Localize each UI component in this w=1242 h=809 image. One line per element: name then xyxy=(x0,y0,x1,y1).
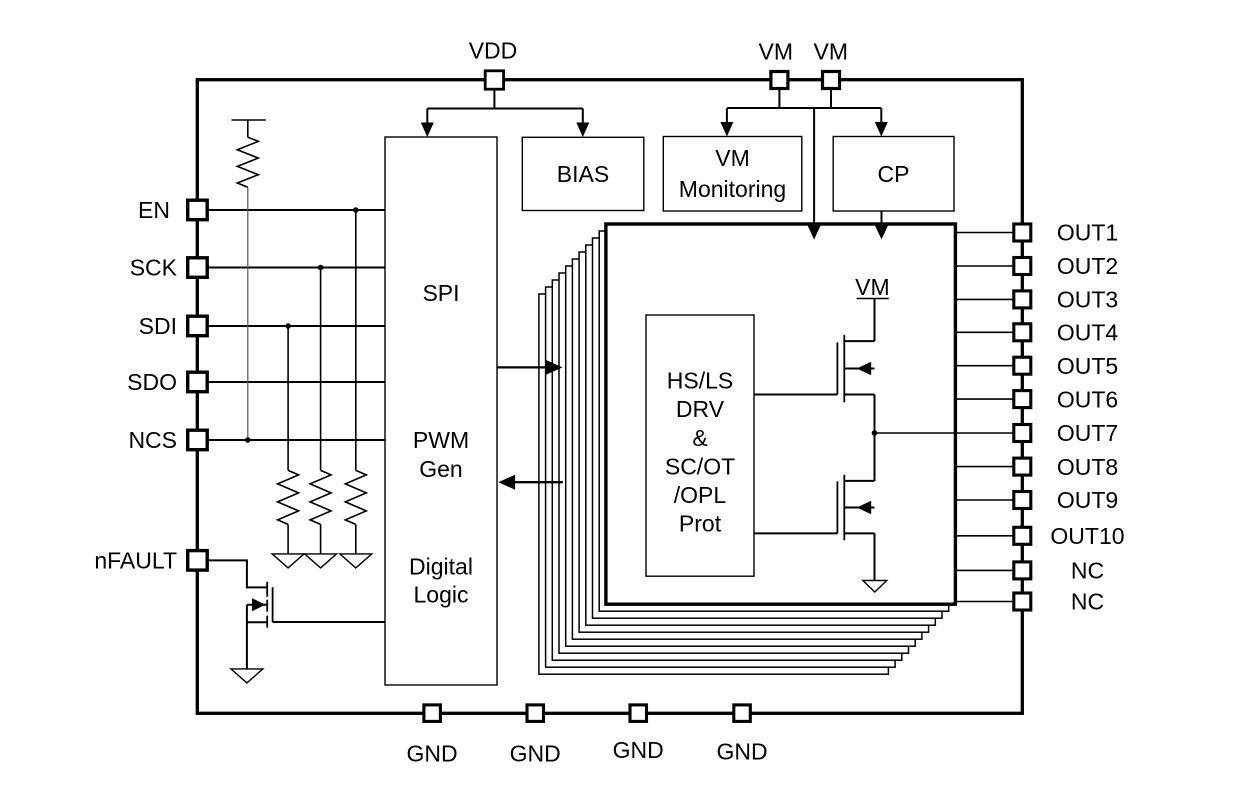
ground under R2 xyxy=(272,554,304,568)
pin GND3 xyxy=(613,705,664,763)
svg-text:&: & xyxy=(692,425,707,451)
wire R3 to ground xyxy=(320,524,322,554)
pin GND1 xyxy=(407,705,458,767)
arrow VDD into BIAS xyxy=(576,123,589,138)
node junction EN tap xyxy=(353,207,359,213)
wire NCS to SPI xyxy=(199,439,385,441)
wire Q2 source to output node xyxy=(874,395,876,434)
arrow VM into VM Monitoring xyxy=(720,122,733,137)
ground under Q1 xyxy=(231,669,263,683)
svg-text:SC/OT: SC/OT xyxy=(665,453,735,479)
svg-text:OUT8: OUT8 xyxy=(1057,454,1118,480)
pin EN xyxy=(138,197,207,223)
pin SDO xyxy=(127,369,207,395)
transistor Q1 nFAULT open-drain NMOS xyxy=(247,582,273,628)
svg-text:NC: NC xyxy=(1071,558,1104,584)
wire CP output stem xyxy=(881,211,883,224)
wire half-bridge to OUT2 xyxy=(955,265,1014,267)
svg-text:Logic: Logic xyxy=(414,581,469,607)
pin OUT3 xyxy=(1014,287,1118,313)
arrow CP into half-bridge xyxy=(875,225,889,240)
svg-text:nFAULT: nFAULT xyxy=(94,548,177,574)
svg-text:NC: NC xyxy=(1071,589,1104,615)
arrow VM into CP xyxy=(875,122,888,137)
wire output node to Q3 drain xyxy=(874,433,876,481)
wire half-bridge to NC xyxy=(955,569,1014,571)
svg-text:NCS: NCS xyxy=(128,427,177,453)
ground under R3 xyxy=(305,554,337,568)
wire VM stems and branch bus xyxy=(727,88,881,224)
svg-text:SDI: SDI xyxy=(139,313,177,339)
svg-text:Prot: Prot xyxy=(679,511,722,537)
svg-text:VM: VM xyxy=(715,145,750,171)
wire HS/LS DRV to Q3 gate xyxy=(754,532,837,534)
svg-text:VM: VM xyxy=(814,39,849,65)
wire half-bridge to OUT3 xyxy=(955,298,1014,300)
block BIAS xyxy=(522,137,644,210)
wire EN to SPI xyxy=(199,209,385,211)
block CP xyxy=(833,137,954,212)
svg-text:HS/LS: HS/LS xyxy=(667,368,733,394)
svg-text:OUT1: OUT1 xyxy=(1057,220,1118,246)
transistor Q3 low-side NMOS xyxy=(837,475,874,541)
svg-text:OUT5: OUT5 xyxy=(1057,353,1118,379)
wire half-bridge to SPI (arrow left) xyxy=(498,475,563,490)
wire SDI tap down xyxy=(287,326,289,470)
pin VDD xyxy=(469,38,518,90)
pin OUT6 xyxy=(1014,386,1118,412)
ground under R4 xyxy=(340,554,372,568)
svg-text:SDO: SDO xyxy=(127,369,177,395)
svg-text:CP: CP xyxy=(878,161,910,187)
wire EN tap down xyxy=(355,210,357,470)
svg-text:OUT6: OUT6 xyxy=(1057,386,1118,412)
wire Q1 source/body to ground xyxy=(246,605,248,669)
pin NC xyxy=(1014,558,1104,584)
wire half-bridge to OUT6 xyxy=(955,398,1014,400)
pin OUT4 xyxy=(1014,320,1119,346)
pin SCK xyxy=(130,255,207,281)
wire half-bridge to OUT5 xyxy=(955,365,1014,367)
wire SPI to half-bridge (arrow right) xyxy=(497,360,563,375)
wire half-bridge to OUT8 xyxy=(955,466,1014,468)
wire R2 to ground xyxy=(287,524,289,554)
pin nFAULT xyxy=(94,548,207,574)
svg-text:DRV: DRV xyxy=(676,396,725,422)
pin GND4 xyxy=(716,705,767,765)
svg-text:Monitoring: Monitoring xyxy=(679,176,786,202)
wire HS/LS DRV to Q2 gate xyxy=(754,394,837,396)
node junction NCS/pull-up xyxy=(245,437,251,443)
svg-text:EN: EN xyxy=(138,197,170,223)
half-bridge stack layers xyxy=(539,231,949,674)
resistor pulldown R4 xyxy=(345,470,366,524)
wire half-bridge to OUT4 xyxy=(955,331,1014,333)
transistor Q2 high-side NMOS xyxy=(837,335,874,402)
svg-text:GND: GND xyxy=(613,737,664,763)
resistor pulldown R2 xyxy=(278,470,299,524)
wire SDO to SPI xyxy=(199,381,385,383)
wire SCK tap down xyxy=(320,268,322,471)
svg-text:OUT4: OUT4 xyxy=(1057,320,1119,346)
half-bridge front block (bold) xyxy=(606,224,956,604)
resistor NCS pull-up xyxy=(232,120,266,187)
svg-text:SPI: SPI xyxy=(422,280,459,306)
svg-text:OUT2: OUT2 xyxy=(1057,253,1118,279)
wire nFAULT to transistor drain xyxy=(199,560,267,587)
block VM Monitoring xyxy=(663,137,802,212)
pin OUT2 xyxy=(1014,253,1118,279)
svg-text:GND: GND xyxy=(716,739,767,765)
pin OUT10 xyxy=(1014,523,1125,549)
pin OUT5 xyxy=(1014,353,1118,379)
pin NCS xyxy=(128,427,207,453)
wire pull-up resistor to NCS xyxy=(247,187,249,440)
pin VM (left) xyxy=(759,39,794,89)
svg-text:Digital: Digital xyxy=(409,553,473,579)
node junction SDI tap xyxy=(285,323,291,329)
svg-text:OUT3: OUT3 xyxy=(1057,287,1118,313)
wire Q1 gate to Digital Logic xyxy=(273,621,385,623)
wire VM rail to Q2 drain xyxy=(874,299,876,342)
svg-text:PWM: PWM xyxy=(413,427,469,453)
svg-text:SCK: SCK xyxy=(130,255,178,281)
pin OUT7 xyxy=(1014,420,1118,446)
svg-text:OUT7: OUT7 xyxy=(1057,420,1118,446)
arrow VM into half-bridge xyxy=(807,225,821,240)
svg-text:VM: VM xyxy=(759,39,794,65)
pin NC xyxy=(1014,589,1104,615)
wire VDD stem and branch bus xyxy=(427,89,583,123)
wire half-bridge to OUT9 xyxy=(955,499,1014,501)
svg-text:VDD: VDD xyxy=(469,38,518,64)
svg-text:VM: VM xyxy=(855,274,890,300)
node output junction xyxy=(872,430,878,436)
wire R4 to ground xyxy=(355,524,357,554)
pin OUT1 xyxy=(1014,220,1118,246)
pin VM (right) xyxy=(814,39,849,89)
pin OUT8 xyxy=(1014,454,1118,480)
wire half-bridge to OUT10 xyxy=(955,535,1014,537)
svg-text:/OPL: /OPL xyxy=(674,482,727,508)
resistor pulldown R3 xyxy=(310,470,331,524)
node junction SCK tap xyxy=(318,265,324,271)
ground under Q3 xyxy=(863,581,887,593)
svg-text:GND: GND xyxy=(510,740,561,766)
wire Q3 source to ground xyxy=(874,533,876,580)
svg-text:Gen: Gen xyxy=(419,456,462,482)
wire half-bridge to OUT1 xyxy=(955,232,1014,234)
arrow VDD into SPI xyxy=(421,123,434,138)
pin SDI xyxy=(139,313,208,339)
pin GND2 xyxy=(510,705,561,766)
chip boundary xyxy=(197,80,1022,714)
wire output node to OUT7 xyxy=(875,432,1015,434)
pin OUT9 xyxy=(1014,487,1118,513)
wire SCK to SPI xyxy=(199,267,385,269)
wire half-bridge to NC xyxy=(955,601,1014,603)
wire SDI to SPI xyxy=(199,325,385,327)
node VM rail label xyxy=(855,274,890,300)
svg-text:GND: GND xyxy=(407,741,458,767)
block HS/LS DRV & SC/OT /OPL Prot xyxy=(646,315,754,576)
svg-text:OUT10: OUT10 xyxy=(1050,523,1124,549)
svg-text:BIAS: BIAS xyxy=(557,161,609,187)
block SPI / PWM Gen / Digital Logic xyxy=(385,137,497,685)
svg-text:OUT9: OUT9 xyxy=(1057,487,1118,513)
